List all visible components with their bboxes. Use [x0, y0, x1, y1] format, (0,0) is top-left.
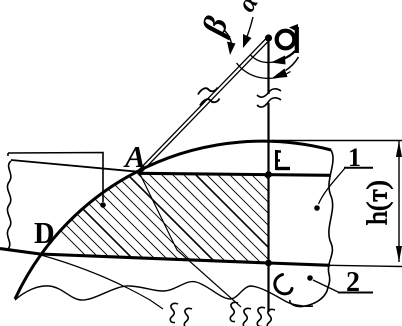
break squiggle SQ-a [170, 303, 192, 326]
bottom extension line to dimension [330, 265, 402, 266]
label E [276, 150, 290, 170]
ground surface line A to right break [139, 173, 331, 175]
vertical center line from O to C and below [267, 41, 269, 312]
hatched cut layer region [0, 150, 402, 310]
alpha leader arrow [246, 17, 253, 39]
left wavy break edge [7, 161, 11, 249]
svg-text:D: D [34, 216, 55, 250]
grinding wheel arc through D and A [15, 141, 331, 299]
svg-text:A: A [123, 139, 146, 174]
wavy break line W1 under workpiece [15, 282, 313, 307]
swash arrow 2 from letter to vertical line [286, 57, 299, 71]
angle arc beta (outer, radius 41) [237, 63, 291, 78]
pivot center O [265, 34, 272, 41]
leader from 2 to bottom dot [313, 280, 339, 293]
svg-text:h(т): h(т) [363, 180, 394, 225]
beta leader arrow [224, 30, 232, 48]
junction dot at C [265, 260, 272, 267]
line from D down to break (L2) [41, 255, 163, 309]
break squiggle SQ-c at bottom of vertical line [257, 307, 275, 326]
break squiggles on rod [198, 88, 220, 106]
break tildes on vertical line [257, 89, 281, 107]
swash arrow 1 from letter to vertical line [283, 51, 295, 59]
lever rod O to A (double line) [138, 37, 270, 173]
dimension line h(t) [398, 141, 400, 262]
junction dot at E [265, 171, 272, 178]
workpiece top surface line left of A [11, 160, 139, 172]
workpiece bottom line through D and C [0, 249, 330, 266]
angle arc alpha (inner, radius 26) [251, 55, 284, 63]
top extension line for dimension [272, 140, 402, 142]
right wavy break edge [290, 150, 333, 307]
label C [275, 275, 292, 294]
callout bracket to hatched layer [8, 153, 103, 203]
line from A down to break (L1) [139, 172, 241, 307]
big letter a with swash [277, 24, 298, 53]
break squiggle SQ-b [230, 302, 251, 326]
svg-text:α: α [231, 0, 264, 17]
leader from 1 to surface dot [319, 168, 346, 204]
junction dot at A [137, 170, 141, 174]
